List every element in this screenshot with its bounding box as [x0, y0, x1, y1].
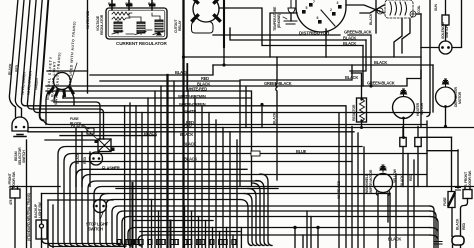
distributor rotor: [321, 10, 335, 26]
wire trunk x183.5: [182, 0, 184, 57]
wire fan right 1: [240, 200, 252, 246]
wire drop x174: [173, 81, 175, 248]
svg-text:BLACK: BLACK: [456, 218, 460, 230]
circuit breaker terminal R: [111, 148, 115, 152]
junction dot a: [182, 55, 185, 58]
wire distributor lead left: [270, 13, 297, 57]
regulator coil 2 contact: [135, 32, 146, 35]
wire bus y49: [362, 46, 364, 87]
wire flasher verticals: [76, 128, 90, 187]
wire bus y199.5: [106, 200, 240, 247]
fuse 1 body: [400, 138, 406, 147]
connector strip inner marks: [118, 240, 235, 245]
wire comb x170.5: [170, 221, 172, 248]
solenoid contact R: [447, 46, 450, 49]
svg-text:1: 1: [379, 10, 381, 14]
wire bus y57: [184, 56, 422, 58]
wire tie y193.5 left: [42, 193, 109, 195]
junction dot g: [360, 126, 363, 129]
svg-text:BLACK: BLACK: [175, 70, 188, 75]
wire bus y235.0: [138, 235, 430, 246]
wire solenoid feed: [445, 0, 447, 41]
stop light switch body: [94, 200, 107, 213]
wire fan right 6: [260, 174, 272, 246]
wire bus y147: [58, 147, 362, 247]
wire bus y34 green-black: [348, 35, 371, 86]
solenoid contact L: [441, 46, 444, 49]
wire right y150: [427, 150, 458, 152]
wire switch fanout 3: [62, 96, 64, 98]
svg-text:BLACK: BLACK: [388, 237, 401, 242]
wire left harness 5: [33, 0, 42, 113]
coil terminal plus: [410, 11, 416, 17]
svg-text:478: 478: [9, 200, 13, 205]
svg-text:RED: RED: [15, 64, 20, 72]
flasher contact L: [92, 157, 95, 160]
backup switch contact: [40, 224, 44, 228]
wire drop x161: [160, 86, 162, 248]
wire bus y211.0: [117, 211, 430, 246]
svg-text:WHITE-RED: WHITE-RED: [337, 180, 341, 199]
wire left bottom verticals: [27, 140, 32, 248]
wire drop x188: [187, 91, 189, 248]
defroster motor body: [436, 87, 456, 107]
wire bus y227.5: [128, 228, 430, 247]
wire cascade WHITE-RED y91: [46, 91, 252, 186]
wire gen feed thick: [186, 64, 188, 91]
wire bus y216.5: [122, 217, 430, 247]
beam selector contact L: [15, 126, 18, 129]
wire drop x223: [222, 128, 224, 248]
fuse 2 body: [415, 138, 421, 147]
wire switch fanout 4: [72, 93, 74, 106]
wire right drops bottom: [352, 127, 414, 248]
svg-text:3: 3: [337, 1, 339, 5]
distributor terminal 6: [318, 20, 322, 24]
wire temp sender stem: [290, 13, 292, 21]
wire drop x136: [135, 106, 137, 248]
stop light terminal R: [102, 205, 105, 208]
svg-text:SWITCH: SWITCH: [88, 227, 103, 232]
wire elbow y109 down: [32, 109, 104, 139]
regulator coil 3: [155, 20, 163, 32]
connector strip blocks: [117, 240, 236, 245]
wire generator out right: [219, 8, 262, 35]
wire solenoid connect: [421, 47, 439, 49]
regulator coil 2: [137, 22, 145, 33]
distributor terminal 7: [309, 3, 313, 7]
wire cascade WHITE y112: [38, 113, 431, 248]
svg-text:7: 7: [313, 0, 315, 4]
resistor zigzag bottom: [112, 17, 130, 20]
wire bus y188.5: [116, 188, 278, 190]
wire dot stubs: [295, 211, 318, 248]
svg-text:DISTRIBUTOR: DISTRIBUTOR: [299, 31, 330, 36]
wire bus y132: [28, 131, 354, 133]
svg-text:RED: RED: [462, 223, 466, 230]
svg-text:2: 2: [330, 8, 332, 12]
regulator internal wiring: [118, 13, 160, 35]
wire comb x205.5: [205, 221, 207, 248]
wire drop x183.5: [182, 57, 184, 248]
coil housing: [385, 0, 413, 18]
regulator coil 1: [114, 22, 122, 32]
wire comb x191.5: [191, 211, 193, 248]
arrow to switch: [70, 63, 77, 84]
wire comb x219.5: [219, 232, 221, 248]
beam selector foot: [14, 135, 26, 137]
wire left harness 1: [9, 0, 18, 117]
wire resistor bottom lead: [361, 122, 363, 128]
circuit breaker box: [98, 139, 111, 152]
svg-text:COIL: COIL: [417, 4, 421, 13]
junction dot e: [402, 136, 405, 139]
wire bus y153 blue: [64, 154, 427, 247]
flasher body: [90, 152, 103, 165]
neutral safety switch tabs: [49, 88, 73, 96]
stop light arrow: [100, 213, 103, 220]
wire defroster down: [445, 107, 447, 127]
svg-text:BLUE: BLUE: [296, 149, 307, 154]
svg-text:RED: RED: [201, 76, 209, 81]
stop light terminal L: [95, 205, 98, 208]
svg-text:BLACK: BLACK: [273, 112, 277, 124]
wire cascade WHITE-GREEN y104: [26, 106, 347, 248]
wire bottom-left exit curves: [42, 238, 126, 247]
generator tabs: [193, 0, 220, 21]
wiper motor lobes: [376, 191, 390, 196]
junction dot 2: [316, 226, 319, 229]
wire right riser x430: [427, 0, 430, 117]
coil windings: [390, 2, 407, 15]
wire drop x148: [147, 98, 149, 248]
junction dot f: [444, 125, 447, 128]
wire switch fanout 1: [46, 92, 48, 125]
wire fuse drop 2: [417, 127, 419, 187]
wire comb x198.5: [198, 217, 200, 248]
circuit breaker cross: [98, 139, 111, 152]
wire solenoid right riser: [452, 0, 462, 48]
defroster ground: [443, 79, 449, 86]
wire drop x142: [141, 113, 143, 248]
wire door switch down: [14, 198, 16, 248]
solenoid fuse: [442, 15, 449, 25]
regulator ground: [156, 31, 162, 36]
wire bus y180: [88, 181, 260, 246]
wiper motor body: [374, 174, 393, 193]
wire drop x230: [229, 132, 231, 248]
temp sender arrow: [283, 17, 287, 19]
wire wiper downs: [378, 193, 388, 248]
circuit breaker arrow: [84, 127, 97, 139]
distributor terminal 3: [338, 5, 342, 9]
wire terminal F: [111, 0, 113, 10]
svg-text:WHITE-BROWN: WHITE-BROWN: [178, 94, 206, 99]
wire far right vertical: [457, 150, 459, 188]
regulator studs: [111, 4, 155, 7]
wire coil crossover: [346, 5, 384, 13]
wire drop x124.6: [124, 106, 126, 248]
svg-text:FUSE: FUSE: [443, 197, 447, 206]
svg-text:(ENGINE): (ENGINE): [277, 14, 281, 28]
wire comb x241.4: [240, 228, 242, 248]
svg-text:FLASHER: FLASHER: [102, 166, 120, 171]
wire bus y174: [82, 175, 426, 247]
svg-text:WHITE-RED: WHITE-RED: [186, 86, 207, 91]
junction dot b: [222, 63, 225, 66]
wire tie y200 left: [48, 199, 113, 201]
svg-text:BLACK: BLACK: [71, 124, 84, 129]
wire comb x132.5: [132, 183, 134, 248]
svg-text:DOOR SW.: DOOR SW.: [12, 171, 16, 188]
solenoid switch body: [439, 41, 452, 54]
wire left harness 3: [21, 0, 30, 106]
wire fuse drop 1: [402, 127, 404, 187]
wire generator right trunk: [223, 0, 225, 47]
wire cascade WHITE-BROWN y98: [63, 97, 251, 99]
svg-text:RED: RED: [409, 174, 413, 181]
wire right verticals mid: [421, 14, 433, 187]
wire cascade BLACK y86: [46, 79, 407, 128]
svg-text:BLACK: BLACK: [374, 60, 387, 65]
wire bus y206.0: [112, 206, 430, 246]
junction dot c: [260, 103, 263, 106]
svg-text:WIPER MOTOR: WIPER MOTOR: [369, 169, 373, 193]
wire gen bus y45.5: [262, 35, 363, 46]
svg-text:BLACK: BLACK: [343, 35, 356, 40]
wire distributor bottom drop: [325, 29, 327, 57]
wire bottom-left v2: [48, 200, 53, 248]
heater resistor zigzag: [360, 98, 365, 122]
wire heater motor down: [403, 118, 405, 138]
wire coil lead vertical: [375, 0, 377, 33]
beam selector dome: [12, 117, 28, 131]
heater motor terminal: [402, 117, 405, 120]
neutral safety switch box: [47, 71, 88, 93]
wire switch box riser: [87, 0, 89, 71]
svg-text:FUSE: FUSE: [70, 117, 79, 121]
r door connector: [456, 188, 461, 191]
wire drop x202: [201, 106, 203, 248]
svg-text:DOOR SW.: DOOR SW.: [468, 170, 472, 187]
distributor terminal 5: [302, 10, 306, 14]
svg-text:BLACK: BLACK: [184, 157, 197, 162]
svg-text:GREEN-BLACK: GREEN-BLACK: [264, 81, 292, 86]
wire right bend bundle: [430, 206, 438, 248]
regulator coil 3 contact: [153, 31, 164, 35]
wire switch fanout 2: [54, 95, 55, 102]
resistor zigzag top: [112, 12, 132, 15]
wire fan right 3: [248, 189, 260, 246]
wire fan right 2: [244, 194, 256, 246]
wire cascade RED y81: [100, 81, 240, 186]
svg-text:REGULATOR: REGULATOR: [100, 14, 104, 35]
wire bus y167: [76, 169, 247, 246]
svg-text:BLACK: BLACK: [400, 175, 404, 187]
R front door switch: [463, 190, 472, 199]
junction dot 1: [293, 226, 296, 229]
junction dot d: [369, 84, 372, 87]
neutral safety switch body: [54, 73, 71, 90]
wire resistor top lead: [352, 73, 362, 98]
wire left harness 6: [40, 0, 49, 121]
R door terminals: [465, 187, 470, 190]
connector circle: [452, 236, 464, 245]
wire green-black heater: [407, 70, 421, 79]
wire fan right 5: [256, 181, 268, 246]
wire drop x195: [194, 98, 196, 248]
flasher contact R: [98, 157, 101, 160]
wire cascade RED y121: [44, 121, 427, 125]
wire bus y186: [10, 187, 474, 247]
wire left harness 2: [15, 0, 24, 117]
wire drop x130: [129, 103, 131, 248]
circuit breaker terminal L: [95, 140, 99, 144]
wire bus y220.5: [133, 220, 213, 222]
svg-text:MOTOR: MOTOR: [458, 91, 462, 104]
svg-text:RESISTOR: RESISTOR: [352, 104, 356, 121]
wire drop x155: [154, 91, 156, 248]
wire comb x151.5: [151, 200, 153, 248]
wire cascade BLACK y75: [90, 65, 213, 75]
fuse right body: [448, 192, 455, 208]
wire connector down: [453, 245, 461, 248]
wire comb x158.5: [158, 211, 160, 248]
heater motor body: [393, 97, 415, 119]
temp sender body: [284, 0, 297, 24]
heater resistor bot dot: [360, 119, 362, 121]
svg-text:BLACK: BLACK: [183, 142, 196, 147]
regulator outer box: [106, 8, 167, 39]
defroster motor terminal: [444, 105, 447, 108]
inline connector: [251, 151, 260, 156]
wire bus y193.5: [100, 194, 390, 247]
wire drop x209: [208, 113, 210, 248]
wire comb x212.5: [212, 228, 214, 248]
wire coil lead A: [394, 19, 402, 57]
svg-text:BLACK: BLACK: [345, 75, 358, 80]
wire bus y140: [45, 139, 94, 141]
wire left harness 4: [27, 0, 36, 109]
svg-text:BLACK: BLACK: [180, 132, 193, 137]
wire coil lead B: [402, 19, 410, 53]
generator body: [193, 0, 219, 22]
door switch terminals: [13, 187, 18, 190]
wire gen bus y40: [230, 28, 366, 40]
svg-text:5: 5: [306, 6, 308, 10]
heater motor ground: [401, 89, 407, 96]
distributor body: [296, 0, 346, 32]
wire r door down: [461, 199, 468, 237]
fuse block arrow: [83, 125, 89, 129]
svg-text:CURRENT REGULATOR: CURRENT REGULATOR: [116, 41, 167, 46]
wire bus y80: [240, 65, 352, 80]
wire comb x233: [232, 235, 234, 248]
wire bus y43: [350, 40, 366, 71]
svg-text:6: 6: [317, 16, 319, 20]
wire comb x226.5: [226, 228, 228, 248]
svg-text:BLACK: BLACK: [369, 13, 373, 25]
wire backup down: [41, 194, 43, 248]
svg-text:RED: RED: [83, 157, 87, 164]
wire elbow y102 down: [54, 102, 100, 139]
wire bus y127 full: [28, 127, 474, 129]
wire bus y65: [213, 47, 433, 65]
regulator coil 1 contact: [112, 31, 123, 34]
coil terminal 1: [377, 8, 383, 14]
wire bus y231.5: [140, 231, 240, 233]
backup light switch box: [36, 220, 47, 239]
wire terminal BAT: [151, 0, 153, 10]
wire drop x167.5: [166, 75, 168, 248]
wire bus y135.6: [60, 135, 156, 137]
svg-text:RELAY: RELAY: [178, 20, 182, 31]
wire fuse vertical: [451, 137, 454, 236]
heater resistor box: [357, 98, 367, 122]
wire gen bus y35: [213, 34, 340, 36]
svg-text:SWITCH: SWITCH: [445, 25, 449, 38]
wire coil out bend: [416, 13, 421, 15]
wire cb feeds: [100, 138, 104, 141]
fuse block body: [87, 128, 94, 134]
wire drop x237: [236, 140, 238, 248]
svg-text:GREEN-BLACK: GREEN-BLACK: [344, 30, 372, 35]
svg-text:SWITCH: SWITCH: [22, 150, 26, 163]
wire bus y160: [70, 162, 352, 247]
connector bars: [434, 242, 442, 245]
svg-text:SUN: SUN: [434, 4, 438, 11]
regulator inner box: [108, 10, 165, 37]
generator base: [192, 22, 214, 34]
wiper ground: [380, 165, 386, 172]
svg-text:RED: RED: [184, 123, 192, 128]
wire right y137: [421, 136, 452, 138]
heater resistor top dot: [360, 98, 362, 100]
wire fan right 4: [252, 183, 264, 246]
distributor terminal 2: [332, 12, 336, 16]
wire distributor drop x277: [276, 57, 277, 180]
wire comb x184.5: [184, 206, 186, 248]
beam selector contact R: [23, 126, 26, 129]
wire drop x216: [215, 120, 217, 248]
L front door switch: [10, 189, 20, 198]
wire terminal GEN: [128, 0, 130, 10]
svg-text:BLACK: BLACK: [343, 41, 356, 46]
